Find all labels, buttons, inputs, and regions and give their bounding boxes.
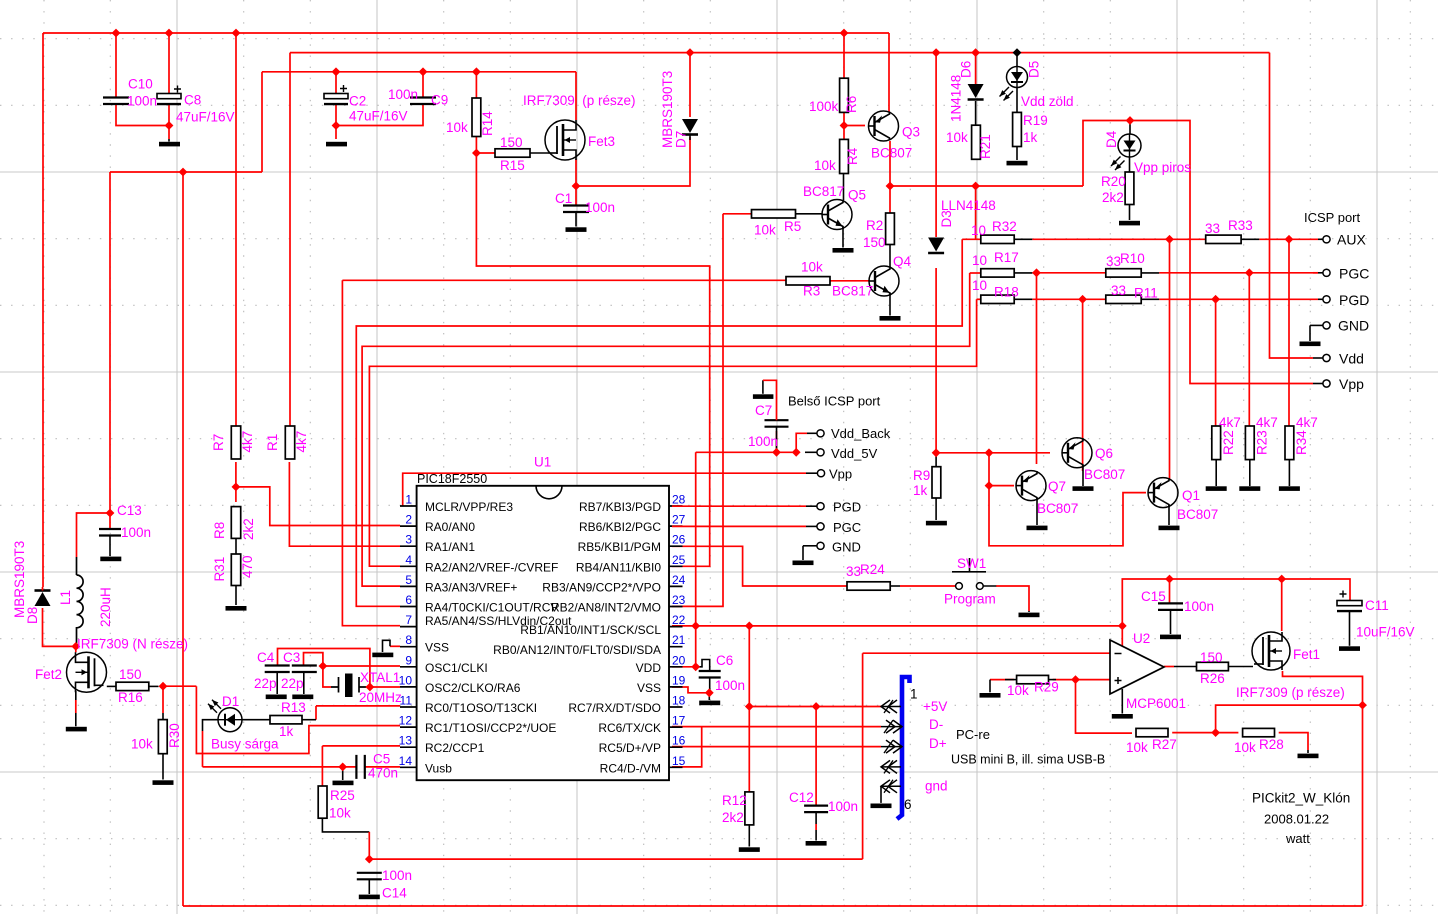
port AUX: [1323, 236, 1330, 243]
resistor R19: [1013, 112, 1022, 146]
capacitor C3: [292, 666, 317, 673]
wire R6-R4: [843, 112, 845, 139]
wire R3 to Q4 base: [830, 280, 869, 282]
svg-text:D5: D5: [1027, 61, 1042, 78]
svg-text:10k: 10k: [814, 158, 836, 173]
svg-text:4k7: 4k7: [1296, 415, 1318, 430]
wire y280 to R3: [342, 279, 786, 281]
MOSFET Fet1 IRF7309 p: [1252, 632, 1290, 670]
junction: [1126, 116, 1135, 125]
svg-text:R30: R30: [167, 723, 182, 748]
svg-text:R18: R18: [994, 285, 1019, 300]
svg-text:RA2/AN2/VREF-/CVREF: RA2/AN2/VREF-/CVREF: [425, 560, 558, 574]
svg-text:R28: R28: [1259, 737, 1284, 752]
svg-text:2008.01.22: 2008.01.22: [1264, 812, 1329, 827]
wire to R5: [723, 213, 751, 215]
resistor R21: [972, 125, 981, 159]
wire R7-R8 node: [235, 462, 237, 502]
wire C13 node to L1 top: [77, 513, 111, 557]
ground pin8: [383, 640, 391, 652]
ground Q6: [1073, 486, 1094, 491]
svg-text:RC2/CCP1: RC2/CCP1: [425, 741, 485, 755]
svg-text:4k7: 4k7: [294, 431, 309, 453]
svg-text:C10: C10: [128, 77, 153, 92]
wire R5 node to pin23: [672, 214, 723, 607]
wire rail to D7: [689, 53, 691, 117]
wire OSC1 to pin9: [323, 665, 400, 667]
resistor R10: [1106, 269, 1141, 277]
svg-text:IRF7309 (p része): IRF7309 (p része): [1236, 685, 1345, 700]
resistor R9: [932, 467, 941, 498]
wire pin13 to R25: [321, 746, 323, 786]
MOSFET Fet3 IRF7309 p: [545, 120, 585, 160]
port PGC internal: [817, 523, 824, 530]
wire gnd row to C5: [203, 766, 357, 768]
svg-text:RA4/T0CKI/C1OUT/RCV: RA4/T0CKI/C1OUT/RCV: [425, 601, 558, 615]
transistor Q5 BC817: [822, 200, 852, 230]
svg-text:Vpp piros: Vpp piros: [1134, 160, 1191, 175]
junction: [338, 763, 347, 772]
svg-text:Q7: Q7: [1048, 479, 1066, 494]
junction: [1358, 701, 1367, 710]
wire PGC stub: [1313, 272, 1318, 274]
wire pin17 D- row: [672, 726, 881, 728]
svg-text:12: 12: [399, 714, 413, 728]
junction: [112, 29, 121, 38]
svg-text:16: 16: [672, 734, 686, 748]
svg-text:Fet2: Fet2: [35, 667, 62, 682]
resistor R15: [495, 149, 530, 157]
ground C13: [100, 557, 121, 562]
junction: [840, 121, 849, 130]
svg-text:4k7: 4k7: [1219, 415, 1241, 430]
svg-text:C14: C14: [382, 886, 407, 901]
junction: [1165, 235, 1174, 244]
svg-text:D6: D6: [959, 61, 974, 78]
svg-text:22: 22: [672, 613, 686, 627]
svg-text:D4: D4: [1104, 130, 1119, 148]
capacitor C15: [1158, 603, 1183, 610]
wire C7 bottom: [776, 431, 778, 452]
svg-text:10k: 10k: [1234, 740, 1256, 755]
wire PGD to Q6 collector: [1082, 299, 1084, 471]
ground R31: [226, 606, 247, 611]
capacitor C5: [356, 755, 364, 779]
svg-text:Vpp: Vpp: [829, 467, 852, 482]
svg-text:R15: R15: [500, 158, 525, 173]
svg-text:15: 15: [672, 754, 686, 768]
wire C12 stub: [815, 824, 817, 830]
svg-text:RC1/T1OSI/CCP2*/UOE: RC1/T1OSI/CCP2*/UOE: [425, 721, 556, 735]
junction: [572, 182, 581, 191]
wire Fet3 source: [575, 72, 577, 120]
wire R1 to pin3: [289, 462, 400, 546]
wire D8 anode to L1 node: [43, 608, 76, 646]
U1 pin leads: [400, 506, 683, 767]
diode D6 1N4148: [968, 84, 984, 98]
svg-text:C2: C2: [349, 94, 366, 109]
svg-text:21: 21: [672, 633, 686, 647]
svg-text:220uH: 220uH: [98, 587, 113, 627]
svg-text:Q5: Q5: [848, 188, 866, 203]
resistor R1: [285, 426, 294, 459]
svg-text:100n: 100n: [828, 799, 858, 814]
junction: [232, 483, 241, 492]
ground Fet2: [66, 727, 87, 732]
opamp U2 MCP6001: [1110, 640, 1164, 694]
svg-text:10uF/16V: 10uF/16V: [1356, 625, 1415, 640]
wire Vdd rail y52: [290, 52, 1270, 54]
junction: [165, 121, 174, 130]
svg-text:Fet3: Fet3: [588, 134, 615, 149]
svg-text:PIC18F2550: PIC18F2550: [417, 472, 487, 486]
LED D1: [218, 708, 242, 732]
svg-text:33: 33: [1111, 283, 1126, 298]
ground C5: [333, 781, 354, 786]
junction: [745, 702, 754, 711]
svg-text:R11: R11: [1134, 286, 1158, 301]
junction: [1071, 675, 1080, 684]
wire RA5 vertical to pin7: [342, 280, 400, 625]
wire Q4 emitter: [889, 293, 891, 316]
wire R28 to gnd: [1279, 733, 1308, 750]
wire R16 node right: [163, 685, 196, 687]
svg-text:Fet1: Fet1: [1293, 647, 1320, 662]
wire PGC row R17-R10: [1032, 272, 1106, 274]
wire C4 top elbow: [278, 649, 370, 688]
wire OSC1 to XTAL left: [323, 666, 331, 687]
junction: [1211, 728, 1220, 737]
wire pin8 stub: [390, 645, 400, 647]
wire pin20 VDD: [672, 666, 696, 668]
ground C7 top: [762, 380, 764, 394]
wire +5V top rail: [43, 32, 889, 34]
wire pin15 jog to D-: [672, 727, 702, 767]
diode D7 MBRS190T3: [682, 119, 698, 133]
junction: [106, 509, 115, 518]
wire Vpp pump rail: [1122, 579, 1350, 626]
svg-text:MBRS190T3: MBRS190T3: [12, 541, 27, 618]
junction: [1211, 295, 1220, 304]
transistor Q4 BC817: [869, 266, 899, 296]
wire opamp out: [1164, 666, 1174, 668]
svg-text:RB1/AN10/INT1/SCK/SCL: RB1/AN10/INT1/SCK/SCL: [520, 623, 661, 637]
junction: [932, 448, 941, 457]
svg-text:R29: R29: [1034, 680, 1059, 695]
svg-text:RB5/KBI1/PGM: RB5/KBI1/PGM: [578, 540, 661, 554]
svg-text:6: 6: [405, 593, 412, 607]
wire to C12: [815, 707, 817, 806]
wire rail to R1: [289, 53, 291, 426]
wire RC2 net vertical: [862, 653, 864, 859]
svg-text:R24: R24: [860, 562, 885, 577]
svg-text:U1: U1: [534, 455, 551, 470]
svg-text:D1: D1: [222, 694, 239, 709]
svg-text:D+: D+: [929, 736, 947, 751]
svg-text:RB2/AN8/INT2/VMO: RB2/AN8/INT2/VMO: [551, 601, 661, 615]
svg-text:R26: R26: [1200, 671, 1225, 686]
svg-text:Vdd_5V: Vdd_5V: [831, 446, 878, 461]
wire to Q3 base: [844, 125, 865, 127]
svg-text:R7: R7: [211, 434, 226, 451]
svg-text:17: 17: [672, 714, 686, 728]
svg-text:C1: C1: [555, 191, 572, 206]
junction: [985, 448, 994, 457]
svg-text:R27: R27: [1152, 737, 1177, 752]
svg-text:R20: R20: [1101, 174, 1126, 189]
junction: [1165, 575, 1174, 584]
svg-text:R31: R31: [212, 557, 227, 582]
junction: [319, 662, 328, 671]
resistor R23: [1245, 426, 1254, 460]
crystal XTAL1: [345, 674, 353, 698]
svg-text:4: 4: [405, 553, 412, 567]
ground R28: [1298, 754, 1319, 759]
svg-text:C7: C7: [755, 403, 772, 418]
wire C8 top: [168, 33, 170, 94]
svg-text:watt: watt: [1285, 831, 1310, 846]
svg-text:14: 14: [399, 754, 413, 768]
junction: [705, 688, 714, 697]
svg-text:10: 10: [972, 278, 987, 293]
wire PGD to R22: [1215, 299, 1217, 426]
USB pin D+: [881, 746, 901, 748]
wire R27-R28: [1172, 732, 1238, 734]
wire rail to D3: [935, 53, 937, 237]
ground USB: [871, 804, 892, 809]
svg-text:R1: R1: [265, 434, 280, 451]
svg-text:PC-re: PC-re: [956, 727, 990, 742]
svg-text:1k: 1k: [279, 724, 294, 739]
svg-text:XTAL1: XTAL1: [360, 670, 400, 685]
wire C8 plate to node: [168, 105, 170, 126]
ground R30: [153, 780, 174, 785]
svg-text:D7: D7: [674, 131, 689, 148]
svg-text:R34: R34: [1294, 430, 1309, 455]
svg-text:RC4/D-/VM: RC4/D-/VM: [600, 761, 661, 775]
svg-text:RC6/TX/CK: RC6/TX/CK: [598, 721, 661, 735]
ground U2: [1112, 714, 1133, 719]
wire rail to Q3 collector: [888, 33, 890, 112]
resistor R24: [847, 582, 890, 590]
svg-text:R33: R33: [1228, 218, 1253, 233]
svg-text:1: 1: [405, 493, 412, 507]
svg-text:R12: R12: [722, 793, 747, 808]
wire C5 to pin14: [365, 766, 400, 768]
svg-text:100n: 100n: [121, 525, 151, 540]
wire USB gnd: [880, 786, 882, 803]
wire pin16 D+ row: [672, 746, 881, 748]
svg-text:ICSP port: ICSP port: [1304, 210, 1361, 225]
ground Q5: [833, 248, 854, 253]
wire C1 node to D7 bottom: [576, 137, 690, 186]
capacitor C8: [157, 94, 181, 99]
svg-text:RC5/D+/VP: RC5/D+/VP: [599, 741, 661, 755]
svg-text:MCP6001: MCP6001: [1126, 696, 1186, 711]
wire C10 top: [115, 33, 117, 98]
svg-text:22p: 22p: [281, 676, 304, 691]
svg-text:OSC2/CLKO/RA6: OSC2/CLKO/RA6: [425, 681, 521, 695]
svg-text:33: 33: [1205, 221, 1220, 236]
wire rail to R6: [843, 33, 845, 78]
ground C2: [326, 142, 347, 147]
svg-text:D3: D3: [939, 210, 954, 227]
wire pin19 VSS jog: [672, 687, 709, 693]
transistor Q7 BC807: [1016, 471, 1046, 501]
wire +in elbow to R27: [1076, 680, 1133, 734]
resistor R13: [270, 716, 302, 724]
wire x262 down: [261, 72, 263, 172]
capacitor C7: [765, 420, 789, 427]
wire PGC to Q7 collector: [1036, 273, 1038, 464]
wire Q3 emitter down: [889, 141, 891, 186]
wire to ICSP Vpp: [1083, 121, 1313, 384]
svg-text:L1: L1: [58, 590, 73, 605]
svg-text:26: 26: [672, 533, 686, 547]
wire Fet2 gate to pin12: [196, 686, 400, 753]
wire pin22 row: [672, 625, 1122, 627]
junction: [840, 29, 849, 38]
junction: [365, 855, 374, 864]
svg-text:8: 8: [405, 633, 412, 647]
svg-text:1: 1: [910, 687, 918, 702]
svg-text:RB0/AN12/INT0/FLT0/SDI/SDA: RB0/AN12/INT0/FLT0/SDI/SDA: [493, 643, 661, 657]
svg-text:33: 33: [1106, 254, 1121, 269]
LED D5: [1007, 67, 1028, 88]
svg-text:PGC: PGC: [833, 520, 861, 535]
svg-text:R13: R13: [281, 700, 306, 715]
svg-text:28: 28: [672, 493, 686, 507]
junction: [366, 683, 375, 692]
svg-text:Q6: Q6: [1095, 446, 1113, 461]
svg-text:VDD: VDD: [636, 661, 662, 675]
svg-text:GND: GND: [1338, 318, 1369, 334]
resistor R20: [1125, 172, 1134, 205]
port GND ICSP: [1323, 322, 1330, 329]
wire to Q1 base: [989, 486, 1146, 546]
wire R25 elbow down: [368, 832, 370, 859]
resistor R12: [745, 792, 754, 825]
junction: [419, 67, 428, 76]
wire R9 node to Q6 base: [936, 452, 1050, 454]
ground R9: [926, 521, 947, 526]
svg-text:RC0/T1OSO/T13CKI: RC0/T1OSO/T13CKI: [425, 701, 537, 715]
IC U1 PIC18F2550 body: [417, 486, 669, 780]
capacitor C6: [699, 671, 721, 678]
wire GND internal: [803, 545, 817, 547]
resistor R17: [981, 269, 1014, 277]
junction: [985, 481, 994, 490]
junction: [691, 622, 700, 631]
svg-text:R6: R6: [844, 96, 859, 113]
svg-text:100n: 100n: [127, 94, 157, 109]
junction: [772, 448, 781, 457]
junction: [165, 29, 174, 38]
svg-text:MCLR/VPP/RE3: MCLR/VPP/RE3: [425, 500, 513, 514]
resistor R26: [1197, 662, 1229, 670]
ground C8: [159, 142, 180, 147]
capacitor C14: [357, 873, 382, 880]
resistor R22: [1212, 426, 1221, 460]
svg-text:RB4/AN11/KBI0: RB4/AN11/KBI0: [576, 560, 661, 574]
svg-text:100n: 100n: [585, 200, 615, 215]
wire C2 bottom to C9: [336, 104, 423, 126]
wire bottom rail: [183, 905, 1363, 907]
junction: [932, 48, 941, 57]
ground R19: [1007, 161, 1028, 166]
svg-text:BC817: BC817: [832, 284, 873, 299]
svg-text:R16: R16: [118, 690, 143, 705]
port Vdd_Back: [817, 430, 824, 437]
svg-text:18: 18: [672, 694, 686, 708]
svg-text:100n: 100n: [715, 678, 745, 693]
svg-text:C11: C11: [1365, 598, 1389, 613]
svg-text:9: 9: [405, 653, 412, 667]
svg-text:AUX: AUX: [1337, 232, 1366, 248]
svg-text:R21: R21: [978, 134, 993, 159]
svg-text:10: 10: [971, 223, 986, 238]
wire MCLR to Vpp port: [403, 473, 806, 506]
svg-text:RA3/AN3/VREF+: RA3/AN3/VREF+: [425, 580, 517, 594]
junction: [1078, 295, 1087, 304]
ground R20: [1119, 221, 1140, 226]
ground C3: [292, 695, 313, 700]
svg-text:RA1/AN1: RA1/AN1: [425, 540, 475, 554]
svg-text:R3: R3: [803, 284, 820, 299]
svg-text:PGD: PGD: [833, 500, 861, 515]
wire pin28 to PGD port: [672, 505, 806, 507]
junction: [792, 448, 801, 457]
port GND internal: [817, 542, 824, 549]
svg-text:R9: R9: [913, 468, 930, 483]
wire VDD net x696: [695, 452, 697, 667]
wire y859: [369, 858, 862, 860]
junction: [1245, 268, 1254, 277]
transistor Q3 BC807: [869, 111, 899, 141]
svg-text:PICkit2_W_Klón: PICkit2_W_Klón: [1252, 791, 1350, 806]
wire pin27 to PGC port: [672, 525, 806, 527]
resistor R29: [1017, 675, 1049, 683]
svg-text:2k2: 2k2: [241, 518, 256, 540]
junction: [1277, 575, 1286, 584]
junction: [886, 182, 895, 191]
ground pin8 bar: [372, 653, 393, 658]
junction D5 black: [1013, 48, 1022, 57]
resistor R28: [1243, 728, 1275, 736]
svg-text:R5: R5: [784, 219, 801, 234]
U1 pin names: [425, 500, 661, 775]
wire rail to D6: [975, 53, 977, 84]
USB pin 4: [881, 766, 901, 768]
port Vpp: [1323, 380, 1330, 387]
svg-text:10k: 10k: [801, 260, 823, 275]
wire GND ICSP: [1310, 324, 1323, 326]
svg-text:10k: 10k: [946, 130, 968, 145]
wire D8 top lead: [42, 587, 44, 591]
wire to C15: [1169, 579, 1171, 603]
svg-text:20: 20: [672, 653, 686, 667]
svg-text:OSC1/CLKI: OSC1/CLKI: [425, 661, 488, 675]
svg-text:4k7: 4k7: [1256, 415, 1278, 430]
svg-text:2k2: 2k2: [1102, 190, 1124, 205]
wire R33 to AUX port: [1259, 238, 1318, 240]
svg-text:R22: R22: [1221, 430, 1236, 455]
USB pin D-: [881, 726, 901, 728]
capacitor C2: [324, 94, 348, 99]
wire R13 up jog: [315, 706, 317, 720]
wire R29 to opamp +in: [1053, 679, 1110, 681]
capacitor C4: [265, 666, 290, 673]
